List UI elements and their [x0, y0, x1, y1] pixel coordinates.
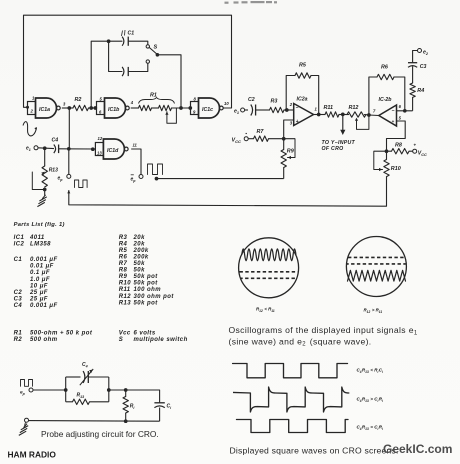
- oscillogram circle 1 (R12 < R11): [239, 238, 299, 298]
- svg-text:+: +: [414, 143, 417, 148]
- ground (probe circuit): [19, 422, 28, 435]
- svg-text:Parts List (fig. 1): Parts List (fig. 1): [14, 222, 65, 228]
- svg-text:R11: R11: [119, 287, 131, 293]
- svg-text:+: +: [392, 119, 395, 124]
- svg-text:C3: C3: [420, 64, 427, 70]
- resistor R1 (500 ohm + 50k pot) with brace: [131, 93, 177, 124]
- svg-text:200k: 200k: [133, 254, 149, 260]
- svg-text:−: −: [296, 105, 299, 111]
- svg-text:IC1d: IC1d: [107, 148, 119, 154]
- ground (R13): [37, 195, 46, 207]
- footer HAM RADIO: [8, 450, 57, 460]
- caption: probe adjusting circuit: [41, 429, 159, 439]
- wire: top branch to C4 probe: [66, 376, 81, 378]
- svg-text:R3: R3: [119, 235, 128, 241]
- square-wave pictograph at ep-bar: [148, 164, 163, 175]
- square-wave pictograph at ep: [75, 180, 88, 188]
- op-amp IC2b: [373, 97, 402, 126]
- svg-text:200k: 200k: [133, 248, 149, 254]
- label C4R13 < RiCi: [357, 368, 384, 374]
- wire: C3 to R4: [412, 66, 414, 83]
- svg-text:50k pot: 50k pot: [134, 281, 159, 287]
- svg-text:25 μF: 25 μF: [29, 296, 48, 302]
- switch S lower contact: [146, 60, 149, 63]
- svg-text:R12: R12: [119, 294, 132, 300]
- dashed baseline 2 in circle 1: [241, 277, 296, 279]
- svg-text:100 ohm: 100 ohm: [134, 287, 162, 293]
- svg-text:1.0 μF: 1.0 μF: [30, 277, 50, 283]
- svg-text:VCC: VCC: [232, 138, 242, 144]
- svg-text:R4: R4: [119, 241, 128, 247]
- svg-text:12: 12: [98, 136, 103, 141]
- potentiometer R12: [347, 105, 369, 129]
- wire: IC1d output pin 11 to ep-bar terminal: [132, 149, 141, 175]
- dashed baseline 1 in circle 2: [348, 256, 405, 258]
- svg-text:IC1a: IC1a: [39, 107, 50, 113]
- wire: R12 to IC2b output node: [364, 113, 371, 117]
- svg-text:R12: R12: [349, 105, 359, 111]
- watermark GeekIC.com: [383, 442, 452, 456]
- svg-text:C3: C3: [14, 296, 23, 302]
- svg-text:R10: R10: [391, 166, 401, 172]
- svg-text:R8: R8: [119, 268, 128, 274]
- svg-text:C1: C1: [128, 31, 135, 37]
- svg-text:0.001 μF: 0.001 μF: [30, 303, 58, 309]
- svg-text:50k: 50k: [134, 268, 146, 274]
- wire: R11 to R12 junction: [339, 113, 349, 117]
- caption: displayed square waves: [230, 446, 399, 456]
- svg-text:R8: R8: [395, 143, 402, 149]
- svg-text:+: +: [296, 119, 299, 125]
- switch S pole and arm: [149, 45, 159, 57]
- svg-text:500-ohm + 50 k pot: 500-ohm + 50 k pot: [30, 330, 93, 336]
- wire: probe input to parallel network: [33, 388, 68, 392]
- wire: R13 to ground: [44, 190, 46, 196]
- svg-text:Ci: Ci: [167, 404, 173, 410]
- svg-text:C4: C4: [14, 303, 23, 309]
- svg-text:−: −: [392, 108, 395, 114]
- node ep probe terminal: [20, 388, 33, 396]
- capacitor C2: [245, 97, 256, 116]
- svg-text:HAM RADIO: HAM RADIO: [8, 450, 57, 460]
- arrow to Y-input of CRO: [322, 114, 356, 152]
- svg-text:C4: C4: [52, 138, 59, 144]
- capacitor C3: [408, 63, 427, 70]
- oscillogram circle 2 (R12 > R11): [346, 237, 406, 297]
- svg-text:500 ohm: 500 ohm: [30, 337, 58, 343]
- svg-text:0.01 μF: 0.01 μF: [30, 264, 54, 270]
- wire: IC2a output: [314, 113, 326, 117]
- svg-text:10: 10: [224, 101, 229, 106]
- resistor R2: [73, 97, 89, 111]
- wire: R7 to bias node: [269, 137, 296, 141]
- dashed baseline 1 in circle 1: [240, 271, 298, 273]
- zigzag trace in circle 2: [348, 270, 406, 281]
- wire: node A branch up to C1 bank: [91, 39, 122, 108]
- NAND gate IC1d: [95, 136, 137, 159]
- svg-text:S: S: [154, 45, 158, 51]
- svg-text:50k: 50k: [134, 261, 146, 267]
- dashed baseline 2 in circle 2: [347, 263, 406, 265]
- wire: IC1a output to node A: [62, 106, 73, 110]
- svg-text:R5: R5: [299, 63, 307, 69]
- svg-text:R9: R9: [119, 274, 128, 280]
- wire: Ri bottom to ground rail: [124, 413, 128, 423]
- potentiometer R13: [32, 148, 58, 191]
- wire: R3 to IC2a inverting input: [284, 108, 294, 112]
- svg-text:R5: R5: [119, 248, 128, 254]
- NAND gate IC1a: [28, 96, 67, 119]
- wire: ep-bar rail to R9 bottom: [155, 177, 284, 181]
- resistor R8: [385, 143, 409, 154]
- wire: C1 upper to switch contact: [128, 41, 148, 44]
- svg-text:IC1: IC1: [14, 235, 25, 241]
- svg-text:R11: R11: [324, 105, 334, 111]
- resistor Ri: [123, 390, 135, 413]
- trimmer capacitor C4 (probe): [80, 362, 93, 385]
- wire: parallel network left rail: [65, 377, 67, 402]
- svg-text:Vcc: Vcc: [119, 330, 131, 336]
- square-wave pictograph at probe input: [21, 380, 33, 387]
- svg-text:0.001 μF: 0.001 μF: [30, 257, 58, 263]
- svg-text:R7: R7: [119, 261, 128, 267]
- resistor R6 feedback loop: [369, 65, 405, 116]
- svg-text:C4: C4: [82, 362, 88, 368]
- svg-text:IC2a: IC2a: [297, 97, 308, 103]
- parts list text block: [14, 222, 188, 343]
- decorative cropped print fragment at top edge: [225, 1, 278, 4]
- resistor R5 feedback loop: [286, 63, 319, 115]
- svg-text:C2: C2: [14, 290, 23, 296]
- svg-text:50k pot: 50k pot: [134, 300, 159, 306]
- label C4R13 > CiRi: [357, 397, 384, 403]
- svg-text:IC2: IC2: [14, 241, 25, 247]
- resistor R7: [254, 129, 269, 141]
- svg-text:R1: R1: [150, 93, 157, 99]
- square wave trace 3 (C4R13 = CiRi): [237, 420, 349, 433]
- wire: C2 to R3: [256, 109, 270, 111]
- svg-text:R13: R13: [119, 300, 132, 306]
- svg-text:R1: R1: [14, 330, 23, 336]
- node e2 terminal: [413, 49, 429, 63]
- power terminal +Vcc (right): [409, 143, 427, 157]
- capacitor C4: [52, 138, 59, 154]
- svg-text:0.1 μF: 0.1 μF: [30, 270, 50, 276]
- capacitor C1 (lower): [122, 67, 128, 76]
- NAND gate IC1b: [97, 97, 134, 119]
- resistor R4: [410, 83, 424, 97]
- wire: R2 to IC1b inputs: [89, 106, 98, 110]
- svg-text:20k: 20k: [133, 235, 146, 241]
- caption: oscillograms: [229, 325, 419, 348]
- capacitor C1 (upper): [122, 30, 135, 46]
- svg-text:R7: R7: [257, 129, 265, 135]
- wire: IC2b output to node: [369, 114, 379, 117]
- label R12 &gt; R11 under circle 2: [364, 308, 383, 314]
- wire: R9 bottom to ep return rail: [283, 168, 285, 179]
- wire: node A to ep terminal column: [68, 149, 70, 175]
- svg-text:6 volts: 6 volts: [134, 330, 156, 336]
- switch S upper contact: [146, 45, 149, 48]
- wire: lower capacitor to switch contact: [128, 64, 148, 72]
- svg-text:R10: R10: [119, 281, 132, 287]
- svg-text:IC1b: IC1b: [108, 107, 120, 113]
- wire: e1 terminal to C4: [38, 146, 54, 150]
- wire: feedback from IC1c output pin 10 to IC1a inputs (top rail): [24, 15, 232, 109]
- wire: IC2a non-inverting input to bias node: [284, 120, 294, 139]
- svg-text:C1: C1: [14, 257, 23, 263]
- svg-text:IC-2b: IC-2b: [379, 97, 393, 103]
- svg-text:10 μF: 10 μF: [30, 283, 48, 289]
- svg-text:25 μF: 25 μF: [29, 290, 48, 296]
- svg-text:R2: R2: [75, 97, 82, 103]
- svg-text:11: 11: [133, 143, 138, 148]
- square wave trace 1 (C4R13 < RiCi): [233, 364, 348, 378]
- svg-text:Displayed square waves on CRO: Displayed square waves on CRO screens.: [230, 446, 399, 456]
- node e1 terminal: [234, 108, 245, 115]
- svg-text:R9: R9: [287, 149, 294, 155]
- wire: network to Ri node: [109, 388, 160, 392]
- svg-text:R6: R6: [119, 254, 128, 260]
- svg-text:R4: R4: [417, 88, 424, 94]
- svg-text:e1: e1: [26, 146, 31, 152]
- power terminal Vcc (left): [232, 133, 249, 144]
- svg-text:Oscillograms of the displayed: Oscillograms of the displayed input sign…: [229, 325, 419, 336]
- square wave trace 2 (C4R13 > CiRi): [233, 387, 349, 412]
- label C4R13 = CiRi: [357, 425, 384, 431]
- wire: IC2b non-inverting input to R8 node: [387, 121, 406, 151]
- svg-text:300 ohm pot: 300 ohm pot: [134, 294, 175, 300]
- svg-text:GeekIC.com: GeekIC.com: [383, 442, 452, 456]
- wire: parallel network right rail: [107, 377, 111, 402]
- node probe ground terminal: [25, 418, 29, 422]
- svg-text:R2: R2: [14, 337, 23, 343]
- wire: ep terminal to bottom ground rail: [67, 190, 386, 206]
- label R12 &lt; R11 under circle 1: [256, 307, 275, 313]
- svg-text:(sine wave) and e2 (square wa: (sine wave) and e2 (square wave).: [229, 336, 372, 347]
- svg-text:50k pot: 50k pot: [134, 274, 159, 280]
- svg-text:Probe adjusting circuit for CR: Probe adjusting circuit for CRO.: [41, 429, 159, 439]
- svg-text:ep: ep: [20, 391, 25, 396]
- svg-text:R6: R6: [381, 65, 389, 71]
- wire: node A down to C4 line: [68, 108, 70, 149]
- wire: Vcc terminal to R7: [248, 138, 253, 140]
- sine-wave pictograph for e1: [23, 122, 37, 136]
- resistor R13 (probe): [66, 393, 109, 405]
- svg-text:R13: R13: [49, 168, 58, 174]
- svg-text:e1: e1: [234, 109, 239, 115]
- wire: probe circuit ground rail: [29, 420, 160, 423]
- svg-text:S: S: [119, 337, 123, 343]
- wire: C4 to IC1d inputs: [59, 147, 96, 151]
- node ep terminal: [58, 174, 71, 181]
- wire: R10 bottom to ground rail: [386, 177, 388, 207]
- wire: R4 to IC2b node: [412, 97, 414, 110]
- op-amp IC2a: [289, 97, 318, 126]
- svg-text:IC1c: IC1c: [202, 107, 213, 113]
- potentiometer R9: [281, 139, 295, 168]
- node ep-bar terminal: [131, 175, 144, 183]
- resistor R3: [270, 99, 285, 113]
- svg-text:LM358: LM358: [30, 241, 51, 247]
- svg-text:13: 13: [97, 151, 102, 156]
- svg-text:Ri: Ri: [130, 404, 136, 410]
- svg-text:R3: R3: [271, 99, 278, 105]
- wire: switch S pole to node B: [157, 55, 181, 108]
- wire: C4 probe to right rail: [88, 376, 108, 378]
- wire: branch down to lower capacitor: [109, 41, 122, 71]
- svg-text:4011: 4011: [29, 235, 45, 241]
- potentiometer R10: [374, 151, 401, 176]
- svg-text:multipole switch: multipole switch: [134, 337, 188, 343]
- sine trace in circle 1: [242, 249, 296, 261]
- svg-text:20k: 20k: [133, 241, 146, 247]
- NAND gate IC1c: [191, 97, 230, 119]
- node e1 input terminal (oscillator side): [26, 146, 38, 152]
- capacitor Ci: [154, 390, 172, 421]
- svg-text:OF CRO: OF CRO: [322, 146, 344, 152]
- wire: R1 to IC1c inputs (node B): [172, 106, 193, 110]
- svg-text:C2: C2: [248, 97, 255, 103]
- resistor R11: [324, 105, 340, 117]
- wire: IC2b inverting input to R4/C3 node: [397, 109, 413, 113]
